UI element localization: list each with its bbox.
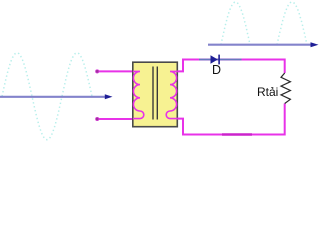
input arrowhead bbox=[105, 94, 113, 99]
input sine waveform bbox=[2, 53, 92, 140]
output arrowhead bbox=[311, 42, 319, 47]
output waveform hump 1 bbox=[221, 2, 250, 45]
resistor Rtai zigzag bbox=[281, 73, 290, 104]
node primary top terminal bbox=[96, 70, 99, 73]
transformer secondary winding bbox=[166, 71, 177, 118]
transformer T1 body bbox=[133, 62, 178, 127]
wire primary top stub bbox=[97, 70, 133, 72]
diode lead wire bbox=[199, 59, 242, 61]
wire primary bottom stub bbox=[97, 118, 133, 120]
diode D cathode bar bbox=[218, 55, 220, 65]
wire secondary top to load bbox=[177, 60, 284, 74]
input signal arrow line bbox=[0, 96, 106, 98]
diode D triangle bbox=[211, 55, 218, 63]
transformer core line left bbox=[152, 67, 154, 120]
transformer core line right bbox=[156, 67, 158, 120]
wire secondary bottom return bbox=[177, 104, 284, 135]
output signal arrow line bbox=[208, 44, 312, 46]
output waveform hump 2 bbox=[277, 2, 307, 45]
transformer primary winding bbox=[133, 71, 144, 118]
svg-text:Rtải: Rtải bbox=[257, 85, 278, 99]
wire darker segment on bottom return bbox=[222, 133, 252, 135]
node primary bottom terminal bbox=[96, 117, 99, 120]
svg-text:D: D bbox=[212, 63, 221, 77]
